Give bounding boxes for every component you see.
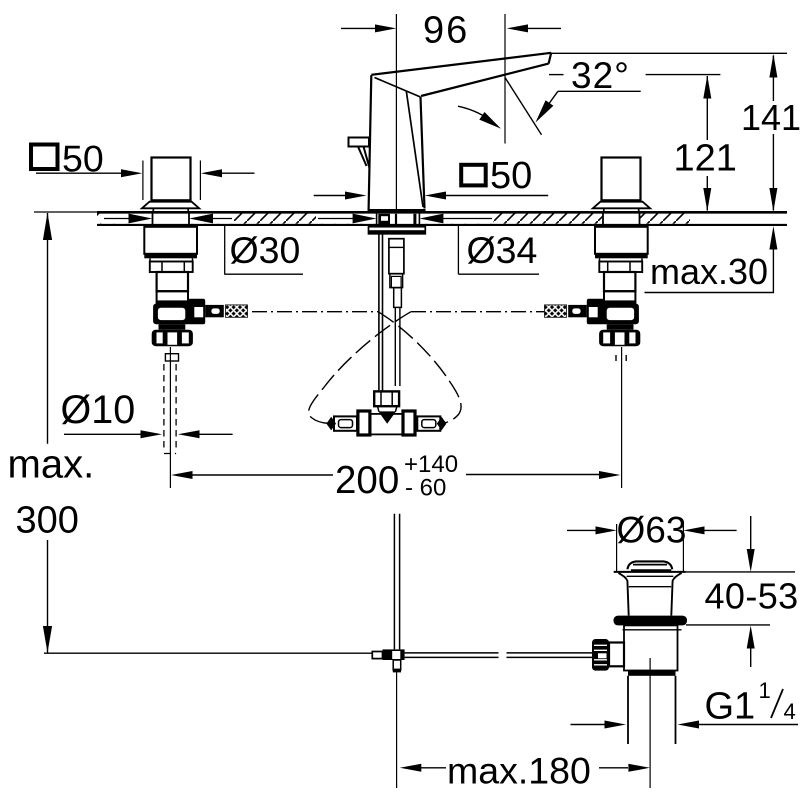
svg-text:Ø30: Ø30	[230, 229, 301, 271]
svg-text:50: 50	[490, 155, 532, 197]
svg-text:- 60: - 60	[405, 475, 446, 502]
svg-text:max.30: max.30	[650, 251, 768, 292]
svg-text:Ø10: Ø10	[61, 388, 136, 432]
svg-text:50: 50	[62, 138, 104, 180]
svg-text:Ø63: Ø63	[617, 510, 687, 551]
svg-text:141: 141	[741, 97, 800, 138]
svg-text:32°: 32°	[571, 55, 630, 96]
svg-text:40-53: 40-53	[705, 576, 799, 617]
svg-text:max.: max.	[8, 443, 95, 487]
svg-text:Ø34: Ø34	[467, 229, 538, 271]
svg-text:121: 121	[674, 138, 737, 180]
svg-text:max.180: max.180	[447, 750, 591, 792]
svg-text:4: 4	[784, 699, 796, 724]
svg-text:200: 200	[335, 459, 399, 502]
svg-text:96: 96	[423, 10, 469, 52]
svg-text:1: 1	[759, 678, 771, 703]
svg-text:300: 300	[16, 500, 79, 542]
svg-text:G1: G1	[705, 686, 756, 728]
